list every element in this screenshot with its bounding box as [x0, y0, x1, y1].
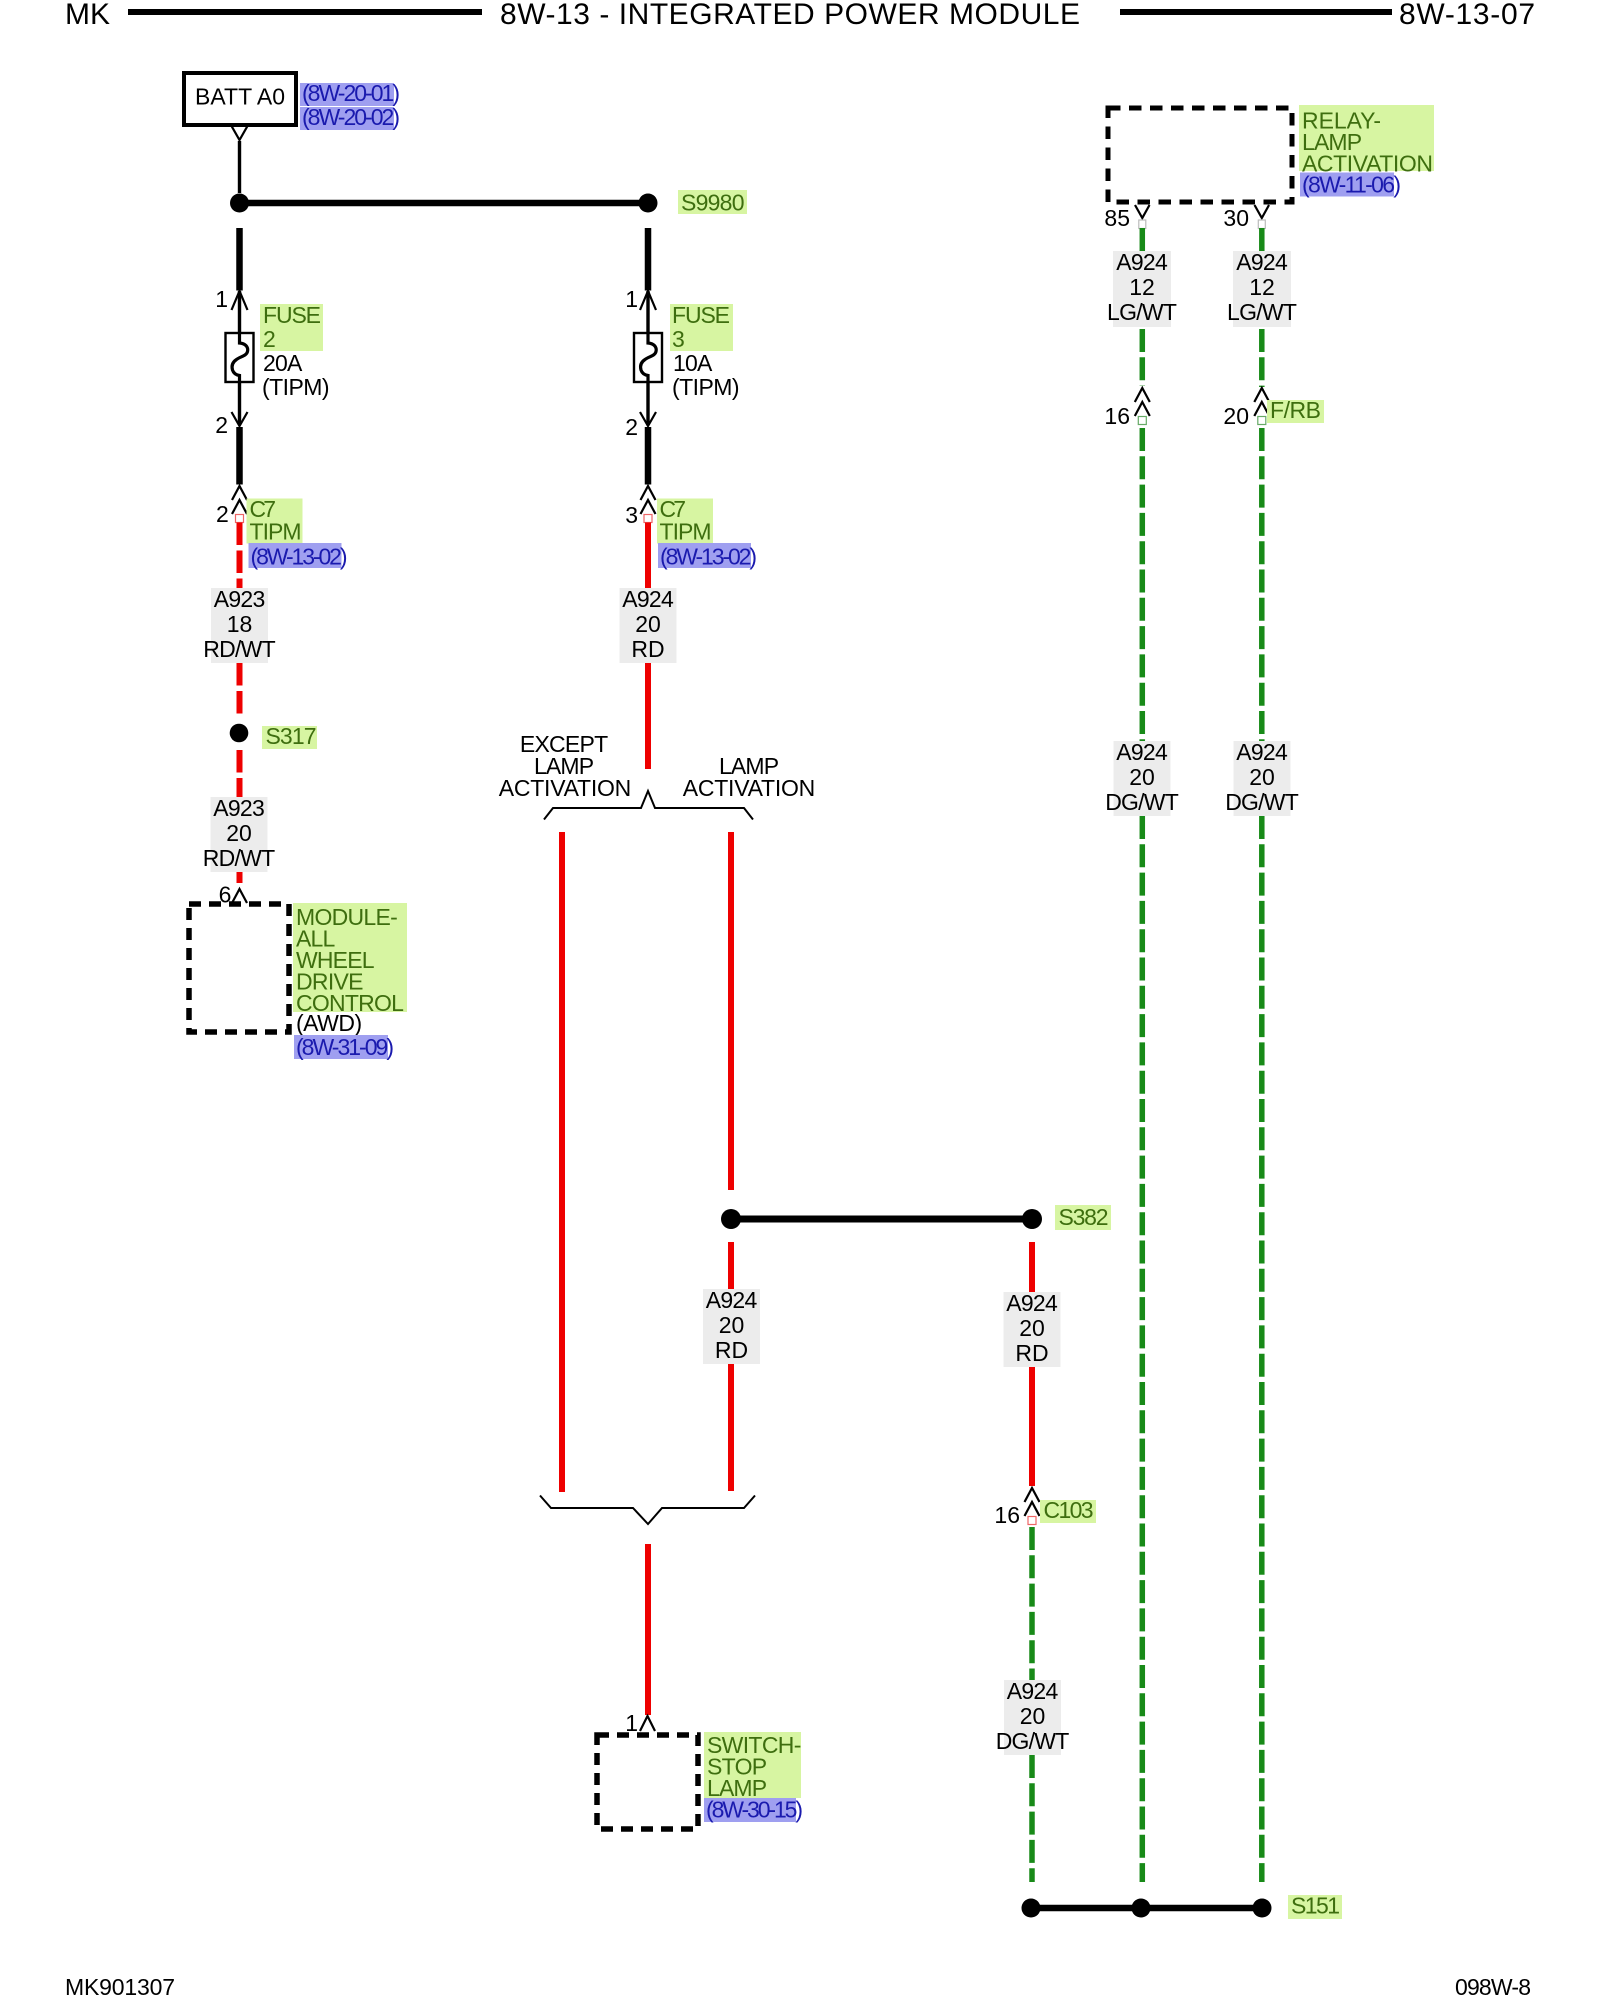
connector C7 pin 2 (left) — [232, 486, 247, 523]
svg-text:20A: 20A — [263, 350, 303, 376]
reference 8W-11-06 — [1300, 172, 1401, 198]
svg-text:RD: RD — [631, 636, 664, 662]
variant merge symbol — [540, 1496, 755, 1525]
wire label A924 12 LG/WT (30) — [1227, 249, 1297, 327]
wire label A924 20 DG/WT (30) — [1225, 739, 1299, 816]
wire A923 18 RD/WT lower — [237, 663, 243, 717]
svg-text:(8W-31-09): (8W-31-09) — [296, 1034, 394, 1060]
splice S151 middle junction — [1132, 1899, 1151, 1918]
in-line connector pin 16 — [1135, 388, 1150, 425]
svg-text:A923: A923 — [214, 586, 266, 612]
svg-text:TIPM: TIPM — [660, 519, 712, 545]
connector C7 pin 3 (middle) — [641, 486, 656, 523]
svg-text:16: 16 — [994, 1502, 1020, 1528]
svg-text:30: 30 — [1223, 205, 1249, 231]
svg-text:1: 1 — [625, 1710, 638, 1736]
fuse 2 label — [260, 302, 323, 352]
fuse 2 pin 2 connector — [232, 412, 248, 426]
wire A924 12 LG/WT (30) upper — [1259, 228, 1265, 251]
wire label A924 20 DG/WT (C103) — [996, 1678, 1070, 1755]
wire S9980 bus — [240, 200, 649, 207]
wire into fuse 2 — [238, 291, 241, 334]
reference 8W-30-15 — [704, 1797, 803, 1823]
note EXCEPT LAMP ACTIVATION — [499, 731, 632, 801]
svg-text:(8W-13-02): (8W-13-02) — [660, 544, 757, 570]
wire label A924 20 RD (to C103) — [1004, 1290, 1061, 1367]
switch stop lamp (dashed box) — [597, 1735, 698, 1829]
svg-text:2: 2 — [625, 414, 638, 440]
svg-text:A924: A924 — [1116, 739, 1168, 765]
reference 8W-13-02 (middle) — [658, 543, 757, 570]
wire lamp-activation branch upper — [728, 832, 734, 1190]
splice S151 left junction — [1022, 1899, 1041, 1918]
node S9980 label — [678, 190, 747, 216]
splice S9980 left junction — [230, 194, 249, 213]
in-line connector F/RB pin 20 — [1254, 388, 1269, 425]
svg-text:F/RB: F/RB — [1270, 397, 1321, 423]
svg-text:DG/WT: DG/WT — [996, 1728, 1070, 1754]
wire into fuse 3 — [646, 291, 649, 334]
wire fuse 3 pin 2 to C7 — [645, 427, 652, 485]
wire A924 20 RD feed upper — [645, 523, 651, 589]
switch stop lamp label — [704, 1732, 801, 1801]
relay lamp activation (dashed box) — [1108, 108, 1292, 202]
svg-text:A924: A924 — [1116, 249, 1168, 275]
wire A924 12 LG/WT (85) upper — [1140, 228, 1146, 251]
svg-text:(8W-13-02): (8W-13-02) — [251, 544, 348, 570]
wire A924 20 RD to C103 upper — [1029, 1242, 1035, 1292]
svg-text:3: 3 — [625, 502, 638, 528]
svg-text:20: 20 — [1223, 403, 1249, 429]
wire label A924 20 DG/WT (85) — [1105, 739, 1179, 816]
wire A924 12 LG/WT (30) lower — [1259, 329, 1265, 387]
svg-text:C103: C103 — [1044, 1497, 1094, 1523]
header rule left — [128, 9, 482, 15]
wire A924 20 RD feed lower — [645, 663, 651, 769]
svg-text:20: 20 — [226, 820, 252, 846]
svg-text:16: 16 — [1104, 403, 1130, 429]
wire S382 bus — [731, 1216, 1032, 1223]
splice S9980 right junction — [639, 194, 658, 213]
svg-text:FUSE: FUSE — [672, 302, 730, 328]
svg-text:85: 85 — [1104, 205, 1130, 231]
wire A924 20 DG/WT (30) lower — [1259, 816, 1265, 1882]
wire label A923 18 RD/WT — [203, 586, 275, 663]
fuse 3 label — [670, 302, 733, 352]
svg-text:2: 2 — [216, 501, 229, 527]
fuse 2 rating — [262, 350, 330, 400]
svg-text:A924: A924 — [1236, 739, 1288, 765]
svg-text:20: 20 — [719, 1312, 745, 1338]
relay pin 30 connector — [1255, 205, 1270, 218]
wire A923 18 RD/WT upper — [237, 523, 243, 589]
wire fuse 2 to pin 2 — [238, 382, 241, 425]
svg-text:DG/WT: DG/WT — [1225, 789, 1299, 815]
svg-text:LG/WT: LG/WT — [1107, 299, 1177, 325]
svg-text:BATT A0: BATT A0 — [195, 84, 285, 110]
node S382 label — [1055, 1204, 1111, 1230]
header rule right — [1120, 9, 1392, 15]
svg-text:LG/WT: LG/WT — [1227, 299, 1297, 325]
svg-text:8W-13-07: 8W-13-07 — [1399, 0, 1535, 31]
svg-text:A924: A924 — [706, 1287, 758, 1313]
svg-text:(TIPM): (TIPM) — [262, 374, 330, 400]
svg-text:A923: A923 — [213, 795, 265, 821]
note LAMP ACTIVATION — [683, 753, 816, 801]
wire BATT A0 to S9980 — [238, 141, 241, 193]
svg-text:20: 20 — [1129, 764, 1155, 790]
svg-text:MK901307: MK901307 — [65, 1974, 175, 2000]
svg-text:20: 20 — [1249, 764, 1275, 790]
svg-text:S151: S151 — [1291, 1893, 1340, 1919]
svg-text:DG/WT: DG/WT — [1105, 789, 1179, 815]
wire label A924 12 LG/WT (85) — [1107, 249, 1177, 327]
svg-text:2: 2 — [215, 412, 228, 438]
fuse F2 — [226, 333, 254, 382]
svg-text:3: 3 — [672, 326, 685, 352]
BATT A0 reference labels — [300, 80, 400, 130]
svg-text:(8W-20-01): (8W-20-01) — [302, 80, 400, 106]
fuse 2 pin 1 connector — [232, 291, 248, 310]
wire to stop lamp switch — [645, 1544, 651, 1715]
connector C103 pin 16 — [1025, 1488, 1040, 1525]
wire A924 20 DG/WT (85) upper — [1140, 428, 1146, 741]
wire A924 12 LG/WT (85) lower — [1140, 329, 1146, 386]
stop lamp switch pin 1 connector — [640, 1716, 655, 1731]
svg-text:1: 1 — [625, 286, 638, 312]
connector C7 TIPM label (middle) — [657, 496, 713, 545]
reference 8W-13-02 (left) — [249, 543, 348, 570]
relay pin 85 connector — [1135, 205, 1150, 218]
splice S151 right junction — [1253, 1899, 1272, 1918]
wire S9980 to fuse 3 pin 1 — [645, 228, 652, 291]
svg-text:S382: S382 — [1059, 1204, 1109, 1230]
wire fuse 2 pin 2 to C7 — [236, 427, 243, 485]
connector C7 TIPM label (left) — [247, 496, 303, 545]
svg-text:20: 20 — [1020, 1703, 1046, 1729]
variant split symbol — [544, 791, 753, 820]
wire lamp-activation below S382 lower — [728, 1364, 734, 1491]
svg-text:ACTIVATION: ACTIVATION — [683, 775, 816, 801]
svg-text:(8W-11-06): (8W-11-06) — [1302, 172, 1401, 198]
svg-text:12: 12 — [1129, 274, 1155, 300]
svg-text:A924: A924 — [622, 586, 674, 612]
module all wheel drive control (dashed box) — [189, 904, 289, 1032]
splice S382 right junction — [1022, 1209, 1042, 1229]
reference 8W-31-09 — [294, 1034, 394, 1060]
svg-text:20: 20 — [1019, 1315, 1045, 1341]
svg-text:MK: MK — [65, 0, 110, 31]
wire A924 20 DG/WT (85) lower — [1140, 816, 1146, 1882]
wire A924 20 DG/WT (C103) upper — [1029, 1527, 1035, 1680]
wire label A923 20 RD/WT — [203, 795, 275, 872]
wire A924 20 DG/WT (C103) lower — [1029, 1755, 1035, 1882]
svg-text:18: 18 — [227, 611, 253, 637]
battery feed BATT A0 — [184, 73, 296, 125]
svg-text:1: 1 — [215, 286, 228, 312]
svg-text:RD: RD — [1015, 1340, 1048, 1366]
fuse F3 — [634, 333, 662, 382]
svg-text:FUSE: FUSE — [263, 302, 321, 328]
svg-text:20: 20 — [635, 611, 661, 637]
svg-text:(8W-30-15): (8W-30-15) — [706, 1797, 803, 1823]
wire A924 20 DG/WT (30) upper — [1259, 428, 1265, 741]
svg-text:(TIPM): (TIPM) — [672, 374, 740, 400]
svg-text:A924: A924 — [1006, 1290, 1058, 1316]
svg-text:A924: A924 — [1236, 249, 1288, 275]
connector C103 label — [1040, 1497, 1096, 1523]
svg-text:S317: S317 — [266, 723, 317, 749]
svg-text:TIPM: TIPM — [250, 519, 302, 545]
wire A923 20 RD/WT upper — [237, 750, 243, 797]
splice S382 left junction — [721, 1209, 741, 1229]
AWD module pin 6 connector — [232, 889, 247, 903]
svg-text:(AWD): (AWD) — [296, 1010, 362, 1036]
svg-text:(8W-20-02): (8W-20-02) — [302, 104, 400, 130]
svg-text:12: 12 — [1249, 274, 1275, 300]
svg-text:10A: 10A — [673, 350, 713, 376]
wire A924 20 RD to C103 lower — [1029, 1367, 1035, 1486]
wire label A924 20 RD feed — [620, 586, 677, 663]
BATT A0 connector pin — [232, 126, 248, 140]
svg-text:098W-8: 098W-8 — [1455, 1974, 1531, 2000]
svg-text:RD/WT: RD/WT — [203, 636, 275, 662]
svg-text:RD: RD — [715, 1337, 748, 1363]
node S151 label — [1288, 1893, 1342, 1920]
wire except-lamp-activation branch — [559, 832, 565, 1492]
connector F/RB label — [1267, 397, 1324, 423]
svg-text:A924: A924 — [1007, 1678, 1059, 1704]
svg-text:S9980: S9980 — [681, 190, 745, 216]
node S317 label — [262, 723, 317, 749]
wire label A924 20 RD (branch) — [703, 1287, 760, 1364]
wire S9980 to fuse 2 pin 1 — [236, 228, 243, 291]
fuse 3 pin 1 connector — [640, 291, 656, 310]
svg-text:ACTIVATION: ACTIVATION — [499, 775, 632, 801]
wire S151 bus — [1031, 1905, 1262, 1912]
svg-text:2: 2 — [263, 326, 276, 352]
svg-text:8W-13 - INTEGRATED POWER MODUL: 8W-13 - INTEGRATED POWER MODULE — [500, 0, 1080, 31]
wire lamp-activation below S382 upper — [728, 1242, 734, 1289]
svg-text:RD/WT: RD/WT — [203, 845, 275, 871]
fuse 3 rating — [672, 350, 740, 400]
splice S317 — [230, 724, 249, 743]
module AWD label — [293, 903, 407, 1016]
wire fuse 3 to pin 2 — [646, 382, 649, 425]
fuse 3 pin 2 connector — [640, 412, 656, 426]
relay lamp activation label — [1299, 105, 1434, 177]
wire A923 20 RD/WT lower — [237, 872, 243, 887]
